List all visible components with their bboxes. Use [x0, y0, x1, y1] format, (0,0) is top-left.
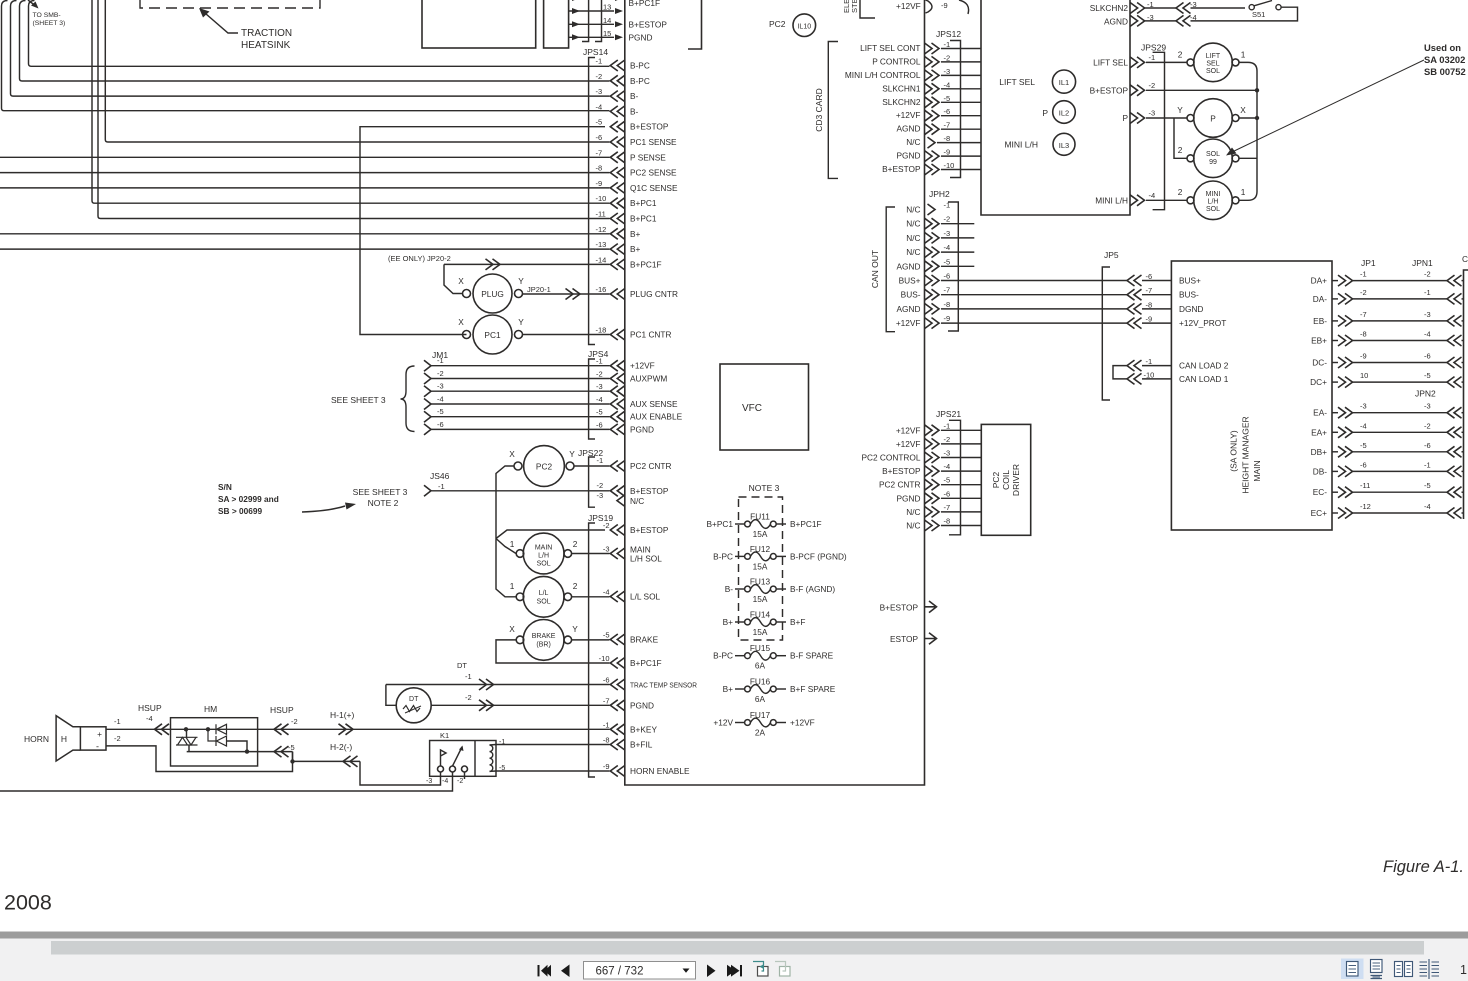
- svg-text:-4: -4: [944, 462, 951, 471]
- svg-text:EB+: EB+: [1311, 336, 1327, 346]
- wire LIFT SEL SOL pin1 to common: [1239, 62, 1257, 200]
- svg-text:-8: -8: [596, 164, 603, 173]
- svg-text:-6: -6: [596, 420, 603, 429]
- svg-text:-4: -4: [596, 395, 603, 404]
- wire Q1C SENSE: [0, 187, 610, 189]
- svg-text:N/C: N/C: [906, 205, 920, 215]
- svg-text:1: 1: [510, 539, 515, 549]
- svg-text:S/N: S/N: [218, 482, 232, 492]
- svg-text:-1: -1: [597, 456, 604, 465]
- scrollbar thumb: [51, 941, 1424, 955]
- wire K1-3 to H-2(-): [360, 761, 441, 785]
- junction dot H-2: [290, 759, 294, 763]
- svg-text:JPS21: JPS21: [936, 409, 961, 419]
- svg-text:-4: -4: [1424, 502, 1431, 511]
- connector JPS4 bracket: [589, 359, 595, 439]
- wire JPS21 -8 to PC2 coil driver: [941, 525, 981, 527]
- connector JM1 pin -1: [424, 360, 431, 371]
- svg-text:-18: -18: [596, 326, 607, 335]
- module PC2 COIL DRIVER: [981, 424, 1030, 535]
- svg-text:B+PC1F: B+PC1F: [790, 519, 822, 529]
- wire SOL 99 to common: [1239, 157, 1257, 159]
- coil PC1: [473, 315, 512, 354]
- svg-text:-9: -9: [1146, 315, 1153, 324]
- wire DT loop: [386, 685, 396, 706]
- connector JM1 pin -5: [424, 411, 431, 422]
- svg-text:PC2 CONTROL: PC2 CONTROL: [861, 453, 920, 463]
- svg-text:JPN2: JPN2: [1415, 389, 1436, 399]
- svg-text:SB 00752: SB 00752: [1424, 66, 1466, 77]
- svg-text:+: +: [97, 729, 102, 739]
- svg-text:DB-: DB-: [1313, 466, 1328, 476]
- svg-text:-2: -2: [596, 72, 603, 81]
- svg-text:-11: -11: [1360, 481, 1370, 490]
- svg-text:2A: 2A: [755, 728, 766, 738]
- svg-text:H-2(-): H-2(-): [330, 742, 352, 752]
- bracket CD3 CARD: [828, 42, 838, 179]
- svg-text:SOL: SOL: [1206, 68, 1220, 75]
- wire S51 return: [1191, 7, 1298, 21]
- wire JPH2 -8 to JP5: [941, 308, 1127, 310]
- wire JPS21 -3 to PC2 coil driver: [941, 457, 981, 459]
- connector JPS29 bracket: [1153, 52, 1165, 209]
- connector JP5 pin -10 CAN LOAD 1: [1127, 373, 1142, 384]
- svg-text:B+F SPARE: B+F SPARE: [790, 684, 836, 694]
- icon two pages: [1395, 962, 1403, 977]
- svg-text:NOTE 3: NOTE 3: [749, 483, 780, 493]
- wire K1-4 to sheet edge: [0, 772, 453, 791]
- svg-text:-2: -2: [291, 717, 298, 726]
- svg-text:B+ESTOP: B+ESTOP: [629, 19, 668, 29]
- svg-text:B-PC: B-PC: [713, 651, 733, 661]
- svg-text:Y: Y: [569, 449, 575, 459]
- svg-text:-3: -3: [603, 545, 610, 554]
- svg-text:NOTE 2: NOTE 2: [368, 498, 399, 508]
- svg-text:-5: -5: [1424, 481, 1431, 490]
- connector JPS19 bracket: [589, 523, 595, 777]
- jumper loop CAN LOAD: [1113, 366, 1127, 379]
- svg-text:-9: -9: [941, 1, 948, 10]
- svg-text:-6: -6: [944, 107, 951, 116]
- solenoid driver box: [981, 0, 1130, 215]
- svg-text:-12: -12: [1360, 502, 1371, 511]
- svg-text:2: 2: [573, 581, 578, 591]
- svg-text:IL2: IL2: [1059, 109, 1069, 118]
- svg-text:-3: -3: [944, 449, 951, 458]
- svg-text:PGND: PGND: [630, 700, 654, 710]
- solenoid MAIN L/H SOL: [523, 533, 564, 574]
- svg-text:PGND: PGND: [630, 424, 654, 434]
- svg-text:6A: 6A: [755, 661, 766, 671]
- svg-text:B-: B-: [630, 91, 639, 101]
- svg-text:B+ESTOP: B+ESTOP: [630, 122, 669, 132]
- svg-text:-2: -2: [1149, 81, 1156, 90]
- svg-text:P CONTROL: P CONTROL: [872, 56, 921, 66]
- svg-text:SEE SHEET 3: SEE SHEET 3: [331, 395, 386, 405]
- svg-text:+12V_PROT: +12V_PROT: [1179, 318, 1226, 328]
- svg-text:S51: S51: [1252, 10, 1265, 19]
- wire JP5 -6 to height manager: [1142, 280, 1171, 282]
- svg-text:-13: -13: [596, 240, 607, 249]
- wire K1-1 to B+FIL: [496, 744, 610, 746]
- svg-text:CAN LOAD 1: CAN LOAD 1: [1179, 374, 1229, 384]
- wire JM1-4 to JPS4 -4: [431, 403, 610, 405]
- relay K1 coil: [490, 745, 493, 771]
- svg-text:-6: -6: [596, 133, 603, 142]
- svg-text:N/C: N/C: [906, 247, 920, 257]
- svg-text:-4: -4: [1149, 191, 1156, 200]
- svg-text:Q1C SENSE: Q1C SENSE: [630, 183, 678, 193]
- svg-text:P: P: [1122, 113, 1128, 123]
- wire JPH2 -4 stub: [941, 251, 974, 253]
- svg-text:ESTOP: ESTOP: [890, 634, 918, 644]
- arrow from note to SOL 99: [1230, 60, 1424, 153]
- svg-text:P: P: [1210, 114, 1216, 124]
- svg-text:-5: -5: [603, 631, 610, 640]
- module box A (traction): [422, 0, 536, 48]
- svg-text:JP5: JP5: [1104, 250, 1119, 260]
- svg-text:H-1(+): H-1(+): [330, 710, 354, 720]
- svg-text:B+PC1: B+PC1: [630, 198, 657, 208]
- svg-text:B-: B-: [630, 106, 639, 116]
- svg-text:2: 2: [1178, 50, 1183, 60]
- svg-text:FU16: FU16: [750, 677, 771, 687]
- connector JM1 pin -4: [424, 399, 431, 410]
- svg-text:2: 2: [573, 539, 578, 549]
- svg-text:-14: -14: [596, 255, 607, 264]
- icon continuous: [1371, 960, 1383, 973]
- bracket for top connector (right): [595, 0, 602, 42]
- svg-text:-1: -1: [596, 57, 603, 66]
- svg-text:(SHEET 3): (SHEET 3): [33, 20, 66, 27]
- svg-text:H: H: [61, 734, 67, 744]
- wire PC1 Y to JPS14 -18: [523, 334, 610, 336]
- svg-text:+12VF: +12VF: [896, 439, 921, 449]
- icon two page continuous: [1428, 959, 1430, 979]
- solenoid P: [1194, 99, 1233, 138]
- svg-text:-7: -7: [944, 121, 951, 130]
- svg-text:JPS29: JPS29: [1141, 43, 1166, 53]
- wire pin 13 to card: [569, 10, 614, 12]
- wire PLUG Y to JPS14 -16 (JP20-1): [523, 293, 610, 295]
- connector JP5 pin -7: [1127, 289, 1142, 300]
- svg-text:N/C: N/C: [906, 219, 920, 229]
- svg-text:+12VF: +12VF: [790, 718, 815, 728]
- svg-text:FU15: FU15: [750, 643, 771, 653]
- switch S51: [1249, 5, 1254, 10]
- module VFC: [720, 364, 809, 450]
- wire JM1-1 to JPS4 -1: [431, 365, 610, 367]
- svg-text:-4: -4: [1424, 330, 1431, 339]
- svg-text:-1: -1: [944, 201, 951, 210]
- wire JPS21 -7 to PC2 coil driver: [941, 511, 981, 513]
- svg-text:SLKCHN2: SLKCHN2: [882, 97, 921, 107]
- svg-text:B+KEY: B+KEY: [630, 724, 657, 734]
- svg-text:B+ESTOP: B+ESTOP: [882, 164, 921, 174]
- wire B-PC/B- loop from SMB pin 4: [29, 1, 610, 67]
- connector JPS14 bracket: [589, 58, 595, 345]
- module box B: [544, 0, 569, 48]
- svg-text:-10: -10: [599, 654, 610, 663]
- svg-text:2: 2: [1178, 145, 1183, 155]
- svg-text:B+PC1: B+PC1: [706, 519, 733, 529]
- svg-text:2: 2: [1178, 187, 1183, 197]
- svg-text:-4: -4: [442, 778, 448, 785]
- svg-text:1: 1: [1241, 50, 1246, 60]
- svg-text:X: X: [509, 624, 515, 634]
- svg-text:-2: -2: [1360, 288, 1367, 297]
- wire PGND from DT: [431, 704, 609, 706]
- svg-text:-6: -6: [1146, 272, 1153, 281]
- wire B+PC1 (pin -10) from top: [92, 0, 610, 203]
- connector stub -9 (clipped): [926, 0, 933, 13]
- svg-text:PC1 CNTR: PC1 CNTR: [630, 330, 672, 340]
- svg-text:B+ESTOP: B+ESTOP: [630, 525, 669, 535]
- wire B+PC1F from JP20-2: [444, 263, 610, 265]
- wire JPS12 -10 to driver box: [941, 169, 981, 171]
- svg-text:SOL: SOL: [1206, 151, 1220, 158]
- svg-text:-3: -3: [596, 87, 603, 96]
- svg-text:X: X: [1240, 105, 1246, 115]
- svg-text:15A: 15A: [753, 561, 768, 571]
- wire B-PC/B- loop from SMB pin 3: [20, 1, 610, 82]
- icon next page: [707, 965, 716, 978]
- wire JPS21 -4 to PC2 coil driver: [941, 470, 981, 472]
- svg-text:SOL: SOL: [537, 561, 551, 568]
- svg-text:PC2 CNTR: PC2 CNTR: [630, 461, 672, 471]
- svg-text:Figure A-1.: Figure A-1.: [1383, 858, 1464, 876]
- svg-text:-3: -3: [944, 229, 951, 238]
- coil PLUG: [473, 274, 512, 313]
- svg-text:MAIN: MAIN: [535, 545, 553, 552]
- svg-text:-1: -1: [596, 357, 603, 366]
- bracket for top connector (left): [582, 0, 589, 42]
- wire JM1-2 to JPS4 -2: [431, 378, 610, 380]
- wire B-PC/B- loop from SMB pin 1: [2, 1, 610, 111]
- wire JPS12 -9 to driver box: [941, 155, 981, 157]
- wire pin 14 to card: [569, 23, 614, 25]
- svg-text:-2: -2: [596, 370, 603, 379]
- svg-text:-2: -2: [597, 481, 604, 490]
- module HM box: [171, 718, 258, 766]
- svg-text:AUXPWM: AUXPWM: [630, 374, 667, 384]
- svg-text:-4: -4: [944, 80, 951, 89]
- svg-text:-3: -3: [1149, 109, 1156, 118]
- svg-text:-1: -1: [1424, 460, 1431, 469]
- svg-text:-8: -8: [603, 736, 610, 745]
- svg-text:-6: -6: [603, 676, 610, 685]
- icon insert pages (teal): [758, 967, 769, 977]
- svg-text:JPH2: JPH2: [929, 189, 950, 199]
- svg-text:B+PC1F: B+PC1F: [630, 658, 662, 668]
- svg-text:-9: -9: [596, 179, 603, 188]
- HM diode 2: [208, 729, 227, 746]
- HM diode 1: [216, 724, 227, 734]
- svg-text:-5: -5: [944, 476, 951, 485]
- svg-text:(EE ONLY) JP20-2: (EE ONLY) JP20-2: [388, 254, 451, 263]
- svg-text:-3: -3: [597, 491, 604, 500]
- svg-text:-5: -5: [288, 743, 295, 752]
- svg-text:JPN1: JPN1: [1412, 258, 1433, 268]
- svg-text:667 / 732: 667 / 732: [596, 966, 644, 978]
- svg-text:JS46: JS46: [430, 471, 450, 481]
- svg-text:-3: -3: [426, 778, 432, 785]
- svg-text:-4: -4: [603, 588, 610, 597]
- svg-text:B-PC: B-PC: [713, 551, 733, 561]
- wire JPH2 -6 to JP5: [941, 280, 1127, 282]
- svg-text:-9: -9: [944, 314, 951, 323]
- svg-text:B-PC: B-PC: [630, 61, 650, 71]
- relay K1 contact pins: [438, 766, 444, 772]
- svg-text:15A: 15A: [753, 594, 768, 604]
- wire JPS21 -5 to PC2 coil driver: [941, 484, 981, 486]
- svg-text:-5: -5: [596, 408, 603, 417]
- svg-text:+12VF: +12VF: [896, 318, 921, 328]
- svg-text:(BR): (BR): [536, 642, 550, 649]
- svg-text:-9: -9: [603, 762, 610, 771]
- svg-text:C: C: [1462, 254, 1468, 264]
- svg-text:-5: -5: [1360, 441, 1367, 450]
- svg-text:AGND: AGND: [897, 304, 921, 314]
- svg-text:HM: HM: [204, 704, 217, 714]
- svg-text:-1: -1: [114, 717, 121, 726]
- svg-text:HSUP: HSUP: [138, 703, 162, 713]
- svg-text:L/L: L/L: [539, 590, 549, 597]
- relay K1 switch arm: [453, 747, 463, 766]
- svg-text:-1: -1: [1360, 270, 1367, 279]
- svg-text:B-PC: B-PC: [630, 76, 650, 86]
- svg-text:SA 03202: SA 03202: [1424, 54, 1465, 65]
- svg-text:6A: 6A: [755, 694, 766, 704]
- wire JP5 -8 to height manager: [1142, 308, 1171, 310]
- svg-text:15A: 15A: [753, 627, 768, 637]
- svg-text:-8: -8: [1146, 300, 1153, 309]
- svg-text:-1: -1: [944, 421, 951, 430]
- svg-text:K1: K1: [440, 731, 449, 740]
- connector JP5 bracket: [1102, 267, 1110, 400]
- svg-text:B+: B+: [723, 617, 734, 627]
- wire JPS21 -2 to PC2 coil driver: [941, 443, 981, 445]
- bracket ELEC STEER: [860, 0, 875, 18]
- solenoid SOL 99: [1194, 139, 1233, 178]
- connector JP5 pin -8: [1127, 303, 1142, 314]
- wire JM1-6 to JPS4 -6: [431, 428, 610, 430]
- scrollbar dark strip: [0, 932, 1468, 939]
- svg-text:MINI: MINI: [1206, 191, 1221, 198]
- svg-text:JPS19: JPS19: [588, 513, 613, 523]
- svg-text:JP20-1: JP20-1: [527, 285, 551, 294]
- connector JPS22 bracket: [589, 457, 595, 507]
- connector JM1 pin -6: [424, 424, 431, 435]
- svg-text:TRAC TEMP SENSOR: TRAC TEMP SENSOR: [630, 681, 697, 690]
- svg-text:LIFT SEL: LIFT SEL: [999, 77, 1035, 87]
- svg-text:B-F (AGND): B-F (AGND): [790, 584, 835, 594]
- solenoid MINI L/H SOL: [1194, 181, 1233, 220]
- svg-text:HSUP: HSUP: [270, 705, 294, 715]
- svg-text:TRACTION: TRACTION: [241, 28, 292, 39]
- svg-text:BRAKE: BRAKE: [532, 633, 556, 640]
- svg-text:EA+: EA+: [1311, 427, 1327, 437]
- svg-text:PLUG: PLUG: [481, 289, 504, 299]
- svg-text:+12VF: +12VF: [896, 1, 921, 11]
- svg-text:X: X: [458, 317, 464, 327]
- wire JPS12 -5 to driver box: [941, 101, 981, 103]
- svg-text:-4: -4: [1190, 13, 1197, 22]
- dashed box around FU11-FU14: [739, 497, 783, 640]
- connector JPH2 bracket: [948, 202, 958, 331]
- svg-text:+12V: +12V: [713, 718, 733, 728]
- svg-text:FU13: FU13: [750, 577, 771, 587]
- wire junction to MAIN L/H SOL pin 1: [496, 539, 516, 554]
- svg-text:VFC: VFC: [742, 403, 762, 414]
- svg-text:-6: -6: [437, 420, 444, 429]
- svg-text:PC2 SENSE: PC2 SENSE: [630, 168, 677, 178]
- wire JS46-1 B+ESTOP to JPS22-2: [431, 490, 610, 492]
- svg-text:MINI L/H: MINI L/H: [1004, 140, 1038, 150]
- wire JM1-3 to JPS4 -3: [431, 390, 610, 392]
- svg-text:B+F: B+F: [790, 617, 805, 627]
- svg-text:B+ESTOP: B+ESTOP: [882, 466, 921, 476]
- svg-text:MINI L/H: MINI L/H: [1095, 196, 1128, 206]
- svg-text:BRAKE: BRAKE: [630, 635, 659, 645]
- svg-text:CAN OUT: CAN OUT: [870, 250, 880, 288]
- wire JPS21 -1 to PC2 coil driver: [941, 429, 981, 431]
- svg-text:B-PCF (PGND): B-PCF (PGND): [790, 551, 847, 561]
- svg-text:N/C: N/C: [630, 496, 644, 506]
- wire JP20-2 branch to PLUG X: [444, 264, 463, 293]
- svg-text:B+ESTOP: B+ESTOP: [1090, 86, 1129, 96]
- svg-text:-7: -7: [596, 148, 603, 157]
- svg-text:-5: -5: [437, 407, 444, 416]
- svg-text:-7: -7: [944, 286, 951, 295]
- svg-text:SEE SHEET 3: SEE SHEET 3: [353, 487, 408, 497]
- svg-text:B+: B+: [630, 229, 641, 239]
- svg-text:DT: DT: [457, 661, 467, 670]
- svg-text:-2: -2: [944, 435, 951, 444]
- svg-text:-2: -2: [457, 778, 463, 785]
- icon replace pages (disabled): [780, 967, 791, 977]
- closing bracket of module signal list: [688, 0, 702, 49]
- svg-text:-4: -4: [437, 395, 444, 404]
- module HEIGHT MANAGER MAIN: [1171, 261, 1332, 530]
- svg-text:IL3: IL3: [1059, 141, 1069, 150]
- wire P X to common: [1239, 117, 1257, 119]
- wire pin 15 to card: [569, 36, 614, 38]
- svg-text:PC2: PC2: [991, 471, 1001, 488]
- svg-text:LIFT: LIFT: [1206, 53, 1221, 60]
- svg-text:MINI L/H CONTROL: MINI L/H CONTROL: [845, 70, 921, 80]
- svg-text:-11: -11: [596, 210, 606, 219]
- svg-text:-2: -2: [1424, 421, 1431, 430]
- wire BRAKE Y to JPS19-5: [572, 639, 610, 641]
- svg-text:DA-: DA-: [1313, 294, 1328, 304]
- wire JM1-5 to JPS4 -5: [431, 416, 610, 418]
- svg-text:B-F SPARE: B-F SPARE: [790, 651, 834, 661]
- svg-text:EC+: EC+: [1311, 508, 1328, 518]
- wire JPS12 -6 to driver box: [941, 115, 981, 117]
- svg-text:B+: B+: [630, 244, 641, 254]
- wire B+ (pin -13): [0, 248, 610, 250]
- svg-text:-1: -1: [465, 672, 472, 681]
- wire JP5 -9 to height manager: [1142, 322, 1171, 324]
- svg-text:HORN: HORN: [24, 734, 49, 744]
- svg-text:Y: Y: [518, 276, 524, 286]
- svg-text:B+: B+: [723, 684, 734, 694]
- svg-text:IL1: IL1: [1059, 78, 1069, 87]
- wire JPS19-2 B+ESTOP to junction: [496, 530, 605, 539]
- svg-text:-5: -5: [944, 94, 951, 103]
- svg-text:L/L SOL: L/L SOL: [630, 592, 661, 602]
